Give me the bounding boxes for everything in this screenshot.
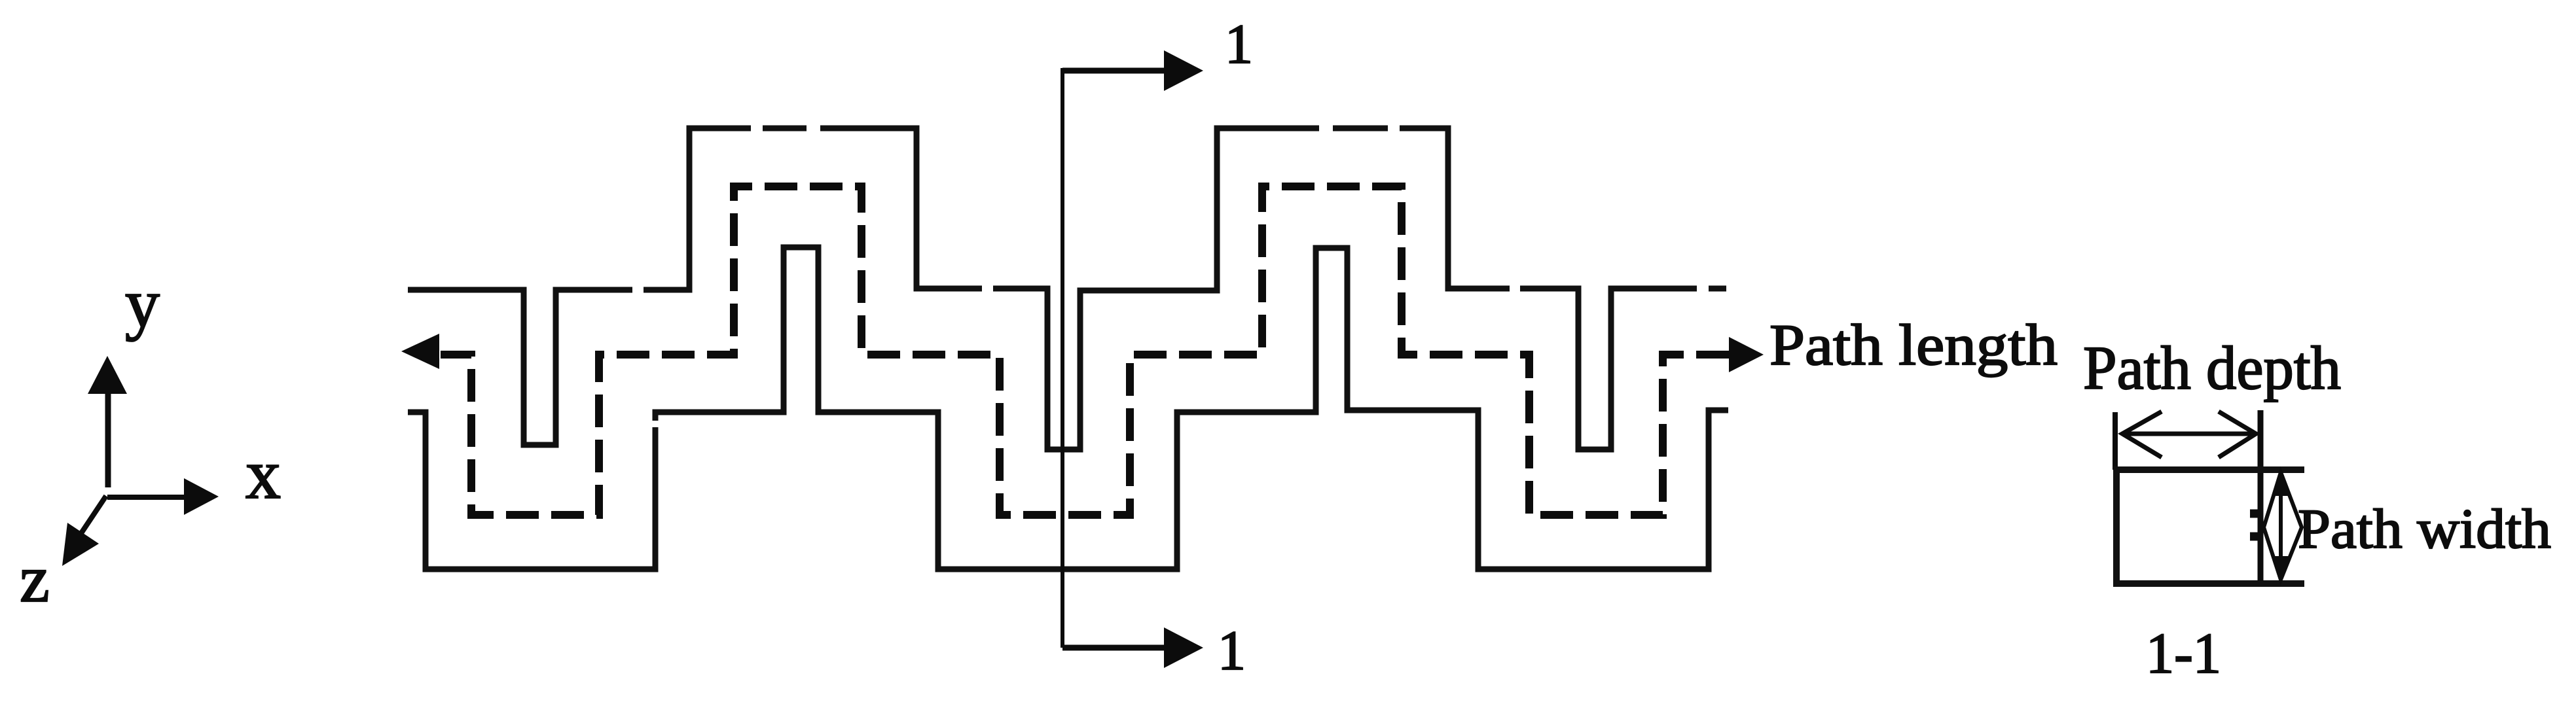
axis x arrow — [107, 478, 219, 515]
svg-text:Path width: Path width — [2298, 497, 2551, 560]
dashed centerline — [441, 186, 1729, 515]
cross-section rectangle — [2116, 470, 2304, 584]
svg-text:1: 1 — [1225, 12, 1253, 75]
sketch gaps in outline — [632, 124, 1709, 427]
svg-text:1: 1 — [1218, 619, 1246, 682]
section line 1-1 vertical — [1061, 68, 1064, 648]
channel lower outline — [408, 247, 1728, 569]
section top arrow — [1062, 50, 1203, 91]
cross-section extension tick right — [2258, 410, 2264, 580]
path length arrow head (right) — [1729, 337, 1764, 372]
svg-text:y: y — [125, 265, 160, 342]
svg-text:Path length: Path length — [1769, 313, 2058, 377]
axis z arrow — [62, 496, 106, 566]
svg-text:x: x — [245, 436, 281, 514]
section bottom arrow — [1062, 627, 1203, 668]
cross-section extension tick left — [2113, 412, 2118, 470]
channel upper outline — [408, 128, 1726, 449]
path width double arrow — [2264, 472, 2302, 580]
svg-text:1-1: 1-1 — [2146, 622, 2221, 686]
svg-text:z: z — [20, 542, 50, 616]
dashed centerline arrow head (left) — [401, 334, 439, 369]
svg-text:Path depth: Path depth — [2083, 334, 2341, 402]
axis y arrow — [88, 356, 127, 487]
broken ticks on rectangle right edge — [2250, 514, 2260, 536]
path depth double arrow — [2122, 412, 2256, 457]
